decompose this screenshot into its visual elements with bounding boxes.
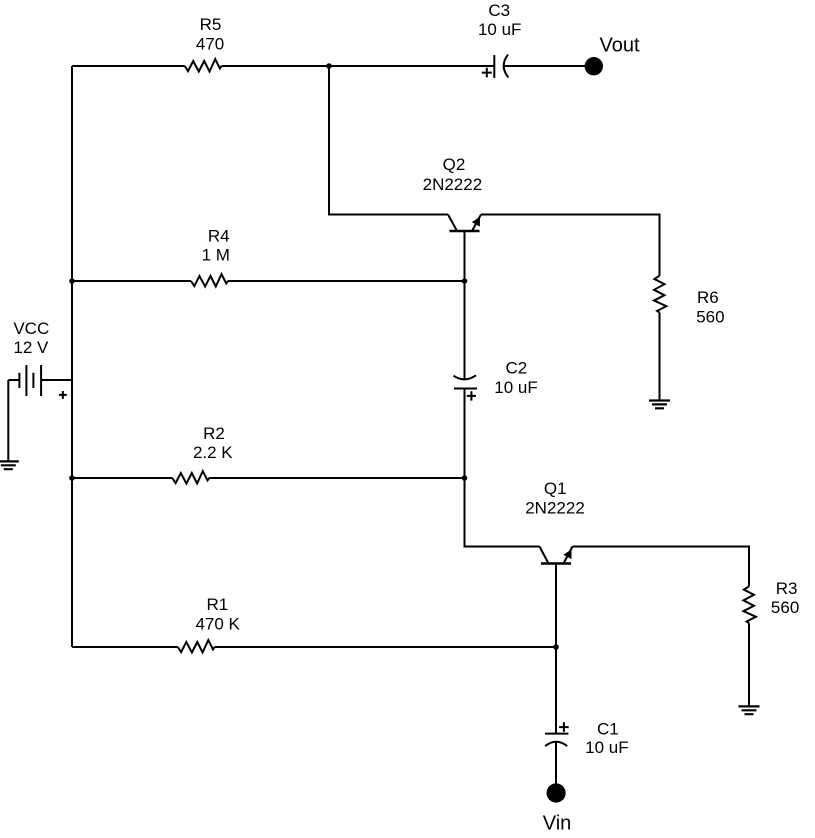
wire: junction down and right to Q2 collector bbox=[329, 66, 448, 215]
transistor Q2 2N2222 bbox=[423, 155, 483, 231]
ground (R6 emitter leg) bbox=[649, 401, 670, 409]
resistor R5 470 bbox=[185, 15, 224, 72]
node: R4/Q2 base junction bbox=[462, 278, 468, 284]
svg-text:470 K: 470 K bbox=[195, 614, 240, 633]
wire: rail to R2 bbox=[72, 477, 172, 479]
wire: rail bottom to R1 bbox=[72, 646, 178, 648]
svg-text:2.2 K: 2.2 K bbox=[193, 443, 233, 462]
wire: Q1 emitter to R3 bbox=[573, 547, 750, 587]
wire: R4 to Q2 base column bbox=[228, 280, 465, 282]
svg-text:560: 560 bbox=[771, 598, 799, 617]
svg-text:1 M: 1 M bbox=[202, 245, 230, 264]
svg-text:Vout: Vout bbox=[599, 34, 639, 56]
resistor R6 560 bbox=[654, 276, 725, 327]
ground (battery) bbox=[0, 461, 19, 469]
node: rail/R2 junction bbox=[69, 475, 75, 481]
terminal Vin bbox=[543, 783, 572, 834]
wire: R2 to C2/Q1 junction bbox=[209, 477, 464, 479]
svg-text:R6: R6 bbox=[697, 288, 719, 307]
capacitor C3 10 uF bbox=[478, 1, 521, 78]
svg-text:10 uF: 10 uF bbox=[494, 378, 537, 397]
wire: VCC rail (left vertical) bbox=[71, 66, 73, 647]
wire: C2 bottom plate down to Q1 collector corner bbox=[465, 389, 540, 547]
wire: R1 to Q1 base junction bbox=[215, 646, 556, 648]
node: junction R5/C3/Q2 collector branch bbox=[326, 63, 332, 69]
svg-text:R4: R4 bbox=[208, 227, 230, 246]
capacitor C2 10 uF bbox=[454, 359, 538, 401]
svg-text:10 uF: 10 uF bbox=[478, 20, 521, 39]
svg-text:C2: C2 bbox=[506, 359, 528, 378]
wire: battery negative to ground bbox=[7, 380, 9, 461]
svg-text:R1: R1 bbox=[207, 595, 229, 614]
node: R1/Q1 base/C1 junction bbox=[553, 644, 559, 650]
node: R2/C2/Q1 collector junction bbox=[462, 475, 468, 481]
wire: top rail from VCC rail to R5 bbox=[72, 65, 185, 67]
svg-text:10 uF: 10 uF bbox=[585, 738, 628, 757]
resistor R3 560 bbox=[744, 579, 800, 623]
svg-text:C1: C1 bbox=[597, 719, 619, 738]
terminal Vout bbox=[585, 34, 640, 75]
svg-text:560: 560 bbox=[696, 308, 724, 327]
transistor Q1 2N2222 bbox=[525, 479, 585, 563]
resistor R2 2.2 K bbox=[172, 424, 233, 484]
wire: R3 to ground bbox=[748, 623, 750, 706]
svg-text:2N2222: 2N2222 bbox=[525, 499, 585, 518]
node: rail/R4 junction bbox=[69, 278, 75, 284]
resistor R4 1 M bbox=[191, 227, 230, 287]
svg-text:2N2222: 2N2222 bbox=[423, 175, 483, 194]
svg-text:R3: R3 bbox=[776, 579, 798, 598]
wire: R5 to C3 positive plate bbox=[222, 65, 495, 67]
wire: C1 to Vin terminal bbox=[555, 742, 557, 785]
wire: Q2 emitter to R6 bbox=[481, 215, 660, 276]
svg-text:VCC: VCC bbox=[13, 319, 49, 338]
battery VCC 12 V bbox=[8, 319, 72, 399]
wire: C3 to Vout terminal bbox=[504, 65, 593, 67]
wire: Q2 base down to C2 bbox=[464, 231, 466, 379]
svg-text:12 V: 12 V bbox=[13, 338, 49, 357]
svg-text:R5: R5 bbox=[200, 15, 222, 34]
svg-text:470: 470 bbox=[196, 34, 224, 53]
ground (R3 emitter leg) bbox=[739, 706, 760, 714]
capacitor C1 10 uF bbox=[545, 719, 629, 757]
svg-text:R2: R2 bbox=[203, 424, 225, 443]
svg-text:Vin: Vin bbox=[543, 813, 572, 835]
svg-text:Q2: Q2 bbox=[443, 155, 466, 174]
svg-text:Q1: Q1 bbox=[544, 479, 567, 498]
resistor R1 470 K bbox=[178, 595, 241, 652]
svg-text:C3: C3 bbox=[488, 1, 510, 20]
wire: rail to R4 bbox=[72, 280, 191, 282]
wire: Q1 base down to C1 bbox=[555, 564, 557, 734]
wire: R6 to ground bbox=[659, 313, 661, 401]
